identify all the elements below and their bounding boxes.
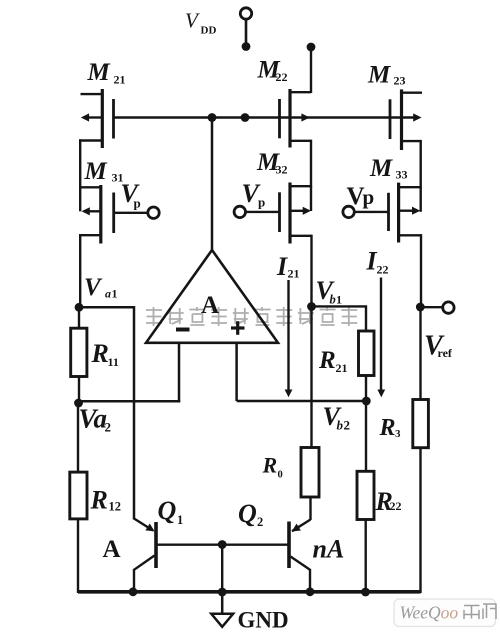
node Q1 collector on ground rail	[129, 587, 138, 596]
svg-text:I: I	[276, 252, 288, 281]
svg-text:1: 1	[336, 293, 342, 307]
resistor R22	[365, 401, 367, 472]
wire Q1 base to Q2 base	[158, 544, 288, 546]
svg-text:p: p	[258, 195, 265, 210]
svg-text:22: 22	[276, 70, 288, 84]
wire Vb1 to R21	[312, 306, 367, 331]
terminal Vref	[420, 306, 442, 308]
svg-text:21: 21	[288, 267, 300, 281]
wire base junction to ground	[221, 545, 223, 593]
svg-text:12: 12	[109, 500, 122, 514]
wire M21 drain to M31	[79, 139, 81, 188]
resistor R21	[359, 331, 375, 376]
node Vb1	[307, 302, 316, 311]
svg-text:A: A	[201, 292, 219, 319]
node Va2	[74, 399, 83, 408]
svg-text:32: 32	[276, 163, 288, 177]
wire M23 drain to M33	[420, 140, 422, 189]
wire gate rail	[114, 116, 415, 119]
svg-text:a: a	[105, 287, 111, 301]
wire rail end arrow at M23	[413, 113, 421, 121]
svg-text:V: V	[185, 9, 200, 33]
svg-text:WeeQoo: WeeQoo	[400, 603, 459, 623]
power terminal VDD	[240, 8, 251, 19]
svg-text:11: 11	[108, 355, 119, 369]
svg-text:2: 2	[105, 420, 112, 435]
svg-text:GND: GND	[238, 608, 289, 633]
node ground junction	[218, 588, 227, 597]
svg-text:2: 2	[257, 515, 263, 529]
transistor M33	[397, 183, 400, 243]
transistor M31	[99, 185, 102, 244]
wire Va2 to op-amp inverting input	[79, 400, 181, 403]
wire M22 drain to M32	[310, 140, 312, 188]
node on rail at x=245	[241, 113, 250, 122]
svg-text:1: 1	[177, 513, 183, 527]
svg-text:Va: Va	[79, 404, 108, 434]
svg-text:1: 1	[112, 287, 118, 301]
resistor R11	[78, 307, 80, 329]
node Vb2	[362, 397, 371, 406]
wire M32 drain to node Vb1	[310, 235, 312, 307]
svg-text:2: 2	[344, 418, 351, 433]
node base junction	[218, 540, 227, 549]
svg-text:0: 0	[278, 470, 283, 481]
svg-text:3: 3	[395, 428, 401, 440]
svg-text:21: 21	[336, 361, 348, 375]
wire op-amp output to rail	[211, 118, 214, 251]
transistor M21	[101, 89, 104, 148]
wire op-amp non-inverting input down	[235, 343, 238, 401]
wire non-inverting input to node Vb2	[237, 400, 367, 403]
svg-text:R: R	[318, 347, 336, 374]
svg-text:M: M	[87, 59, 111, 86]
wire ground rail	[78, 590, 421, 594]
svg-text:21: 21	[114, 73, 126, 87]
node R22 on ground rail	[361, 588, 370, 597]
node Vref junction	[416, 303, 425, 312]
svg-text:Q: Q	[238, 499, 257, 528]
svg-text:M: M	[369, 155, 393, 182]
resistor R3	[413, 400, 429, 448]
svg-text:b: b	[330, 293, 336, 307]
watermark WeeQoo box	[394, 599, 497, 627]
terminal Vp of M31	[114, 212, 148, 214]
svg-text:23: 23	[394, 74, 406, 88]
resistor R0	[301, 448, 319, 498]
svg-text:p: p	[134, 196, 141, 211]
svg-text:b: b	[337, 418, 344, 433]
wire Vb1 down to R0	[310, 307, 312, 449]
svg-text:33: 33	[396, 168, 408, 182]
watermark chinese text	[146, 307, 357, 326]
svg-text:R: R	[262, 453, 278, 478]
node Q2 collector on ground rail	[306, 587, 315, 596]
wire VDD feed to M22	[307, 43, 316, 52]
svg-text:DD: DD	[201, 25, 217, 37]
svg-text:M: M	[84, 158, 108, 185]
transistor M23	[400, 89, 403, 150]
resistor R12	[77, 403, 79, 473]
svg-text:p: p	[363, 185, 375, 209]
transistor Q1	[134, 519, 153, 531]
wire M31 drain to node Va1	[79, 234, 81, 307]
terminal Vp of M32	[246, 211, 280, 213]
transistor M22	[288, 89, 291, 148]
svg-text:nA: nA	[313, 535, 345, 564]
wire Vref node down to R3	[419, 307, 421, 401]
svg-text:ref: ref	[438, 346, 453, 360]
transistor Q2	[309, 496, 311, 520]
svg-text:V: V	[84, 274, 103, 301]
svg-text:22: 22	[377, 263, 389, 277]
node on rail (op-amp output)	[208, 113, 217, 122]
wire op-amp inverting input down	[178, 343, 181, 403]
svg-text:R: R	[90, 486, 108, 515]
svg-text:A: A	[103, 536, 121, 563]
terminal Vp of M33	[355, 211, 389, 213]
wire M22 source arrow on rail	[301, 113, 309, 121]
svg-text:22: 22	[390, 499, 402, 513]
wire Va1 to Q1 emitter (right then down)	[79, 307, 134, 519]
op-amp U1 (A)	[146, 250, 278, 343]
wire M33 drain to Vref node	[420, 234, 422, 307]
svg-text:R: R	[379, 415, 396, 441]
svg-text:Q: Q	[158, 496, 177, 525]
svg-text:M: M	[367, 62, 391, 89]
svg-text:R: R	[91, 339, 109, 368]
ground symbol GND	[221, 592, 224, 614]
transistor M32	[288, 183, 291, 244]
node Va1	[75, 303, 84, 312]
